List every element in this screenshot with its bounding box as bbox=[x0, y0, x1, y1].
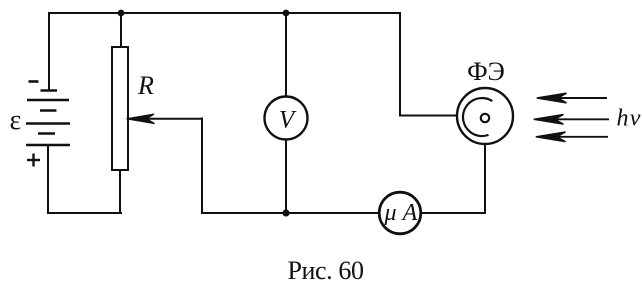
label FE bbox=[467, 57, 505, 86]
wire voltmeter top lead bbox=[285, 13, 287, 97]
wire top rail bbox=[49, 12, 400, 14]
svg-text:A: A bbox=[401, 200, 418, 226]
label R bbox=[137, 71, 154, 100]
wire voltmeter bottom lead bbox=[285, 140, 287, 214]
svg-text:ε: ε bbox=[10, 105, 22, 136]
resistor R (rheostat) bbox=[112, 47, 128, 170]
light arrow 3 bbox=[536, 132, 608, 142]
rheostat wiper arrow bbox=[127, 114, 203, 213]
junction dot top-left node bbox=[118, 10, 125, 17]
junction dot bottom node bbox=[282, 209, 289, 216]
battery plus sign bbox=[27, 154, 40, 167]
wire battery bottom lead bbox=[47, 145, 49, 213]
label h-nu bbox=[617, 106, 642, 132]
wire bottom rail (wiper to microammeter) bbox=[202, 212, 379, 214]
svg-text:Рис. 60: Рис. 60 bbox=[287, 256, 364, 285]
svg-text:μ: μ bbox=[383, 200, 396, 226]
battery E bbox=[26, 91, 70, 146]
svg-text:ФЭ: ФЭ bbox=[467, 57, 505, 86]
voltmeter V bbox=[265, 97, 308, 140]
wire resistor top lead bbox=[120, 13, 122, 47]
wire microammeter to photocell anode bbox=[421, 122, 485, 213]
svg-text:R: R bbox=[137, 71, 154, 100]
junction dot top-middle node bbox=[283, 10, 290, 17]
light arrow 1 bbox=[537, 93, 607, 103]
svg-text:hν: hν bbox=[617, 106, 642, 132]
wire resistor bottom lead bbox=[119, 170, 121, 213]
photocell FE envelope bbox=[457, 88, 513, 144]
caption Fig. 60 bbox=[287, 256, 364, 285]
wire left vertical (battery top lead) bbox=[48, 13, 50, 90]
light arrow 2 bbox=[534, 114, 609, 124]
wire bottom-left rail bbox=[48, 212, 121, 214]
label epsilon (EMF) bbox=[10, 105, 22, 136]
microammeter uA bbox=[379, 192, 421, 234]
photocell cathode arc bbox=[463, 98, 492, 136]
battery minus sign bbox=[29, 80, 39, 83]
photocell anode contact bbox=[481, 114, 489, 122]
wire right vertical to photocell bbox=[400, 13, 458, 116]
